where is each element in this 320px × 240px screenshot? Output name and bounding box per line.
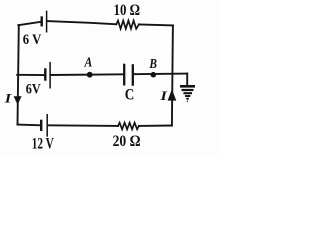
svg-text:I: I (4, 91, 13, 106)
svg-text:12 V: 12 V (32, 136, 54, 153)
svg-text:20 Ω: 20 Ω (113, 133, 141, 150)
svg-text:I: I (159, 88, 168, 103)
svg-text:B: B (149, 57, 157, 72)
svg-text:C: C (125, 86, 135, 103)
svg-text:A: A (84, 56, 93, 71)
svg-text:10 Ω: 10 Ω (114, 2, 141, 19)
svg-text:6V: 6V (26, 82, 41, 98)
svg-text:6 V: 6 V (23, 32, 42, 48)
